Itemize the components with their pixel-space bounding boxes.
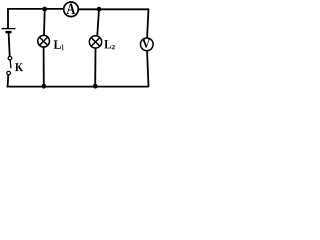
label L1 xyxy=(54,40,64,50)
wire L2 branch lower segment xyxy=(94,48,96,87)
wire top right segment xyxy=(79,8,149,10)
wire left upper segment xyxy=(7,8,9,28)
wire L1 branch lower segment xyxy=(43,47,45,86)
label L2 xyxy=(104,40,115,49)
node junction dot bottom L1 xyxy=(41,84,46,89)
wire battery to switch segment xyxy=(9,33,10,56)
wire right upper segment xyxy=(147,8,148,37)
node junction dot top L1 xyxy=(42,7,47,12)
wire L2 branch upper segment xyxy=(97,9,99,35)
wire right lower segment xyxy=(147,51,148,87)
lamp L1 xyxy=(38,35,50,47)
node junction dot bottom L2 xyxy=(93,84,98,89)
lamp L2 xyxy=(89,36,101,48)
battery cell long plate xyxy=(2,28,16,30)
node junction dot top L2 xyxy=(97,7,102,12)
ammeter U1 A xyxy=(64,2,79,17)
voltmeter U2 V xyxy=(140,38,153,51)
wire switch to bottom segment xyxy=(7,75,10,87)
wire bottom segment xyxy=(7,86,149,88)
battery cell short plate xyxy=(6,31,12,33)
wire L1 branch upper segment xyxy=(43,9,46,35)
switch K xyxy=(7,56,23,74)
wire top left segment xyxy=(7,8,63,10)
